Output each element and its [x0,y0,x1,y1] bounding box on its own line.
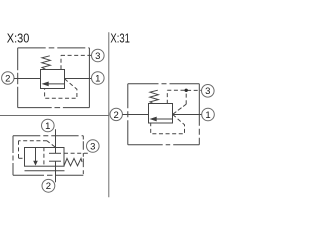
svg-text:3: 3 [205,86,210,97]
blocked port T bar bottom (LV30) [49,160,61,162]
valve body (LV30) [25,148,65,167]
svg-text:3: 3 [95,51,100,62]
pilot line valve top to port 3 (RV30) [61,55,92,69]
spring (RV30) [42,56,51,70]
svg-text:1: 1 [45,121,50,132]
pilot line to port 3 (LV30) [64,152,89,154]
port 2 (RV30) [2,72,14,85]
svg-text:1: 1 [95,73,100,84]
wire port2 to valve (RV30) [14,78,41,80]
spring (LV30) [64,158,82,165]
port 1 (RV31) [202,108,215,121]
port 1 (RV30) [92,72,105,85]
wire valve to port1 (RV30) [65,78,92,80]
divider horizontal line [0,115,109,117]
body underline (LV30) [25,170,65,172]
pilot loop below valve (RV30) [45,79,77,98]
svg-text:X:31: X:31 [110,30,129,45]
svg-text:2: 2 [5,73,10,84]
pilot branch from main line (RV31) [173,92,187,114]
wire valve down to port2 (LV30) [55,161,57,182]
relief valve RV30 enclosure [18,48,90,108]
relief valve RV31 enclosure [128,84,200,145]
wire port1 down to valve (LV30) [55,129,57,153]
position divider (LV30) [43,147,45,166]
svg-text:1: 1 [205,110,210,121]
pilot line left side (LV30) [19,141,55,159]
pilot line valve top to port 3 (RV31) [167,90,201,104]
spring (RV31) [150,90,159,104]
valve body square (RV30) [41,70,65,89]
pilot loop below valve (RV31) [151,115,185,134]
port 3 (RV30) [92,49,105,62]
blocked port T bar top (LV30) [49,152,61,154]
valve body square (RV31) [149,104,173,124]
port 1 (LV30) [42,119,55,132]
wire valve to port1 (RV31) [173,114,202,116]
arrow in valve (RV30) [42,82,65,87]
port 3 (RV31) [202,85,215,98]
port 2 (LV30) [42,179,55,192]
svg-text:3: 3 [90,141,95,152]
port 2 (RV31) [110,108,122,121]
logic valve LV30 enclosure [13,136,83,176]
port 3 (LV30) [87,140,100,153]
arrow in valve (RV31) [150,117,173,122]
wire port2 to valve (RV31) [122,114,148,116]
svg-text:2: 2 [114,110,119,121]
svg-text:X:30: X:30 [7,30,30,45]
junction dot (RV31) [185,89,188,92]
svg-text:2: 2 [46,181,51,192]
flow arrow down (LV30) [33,147,38,165]
divider vertical line [108,32,110,197]
